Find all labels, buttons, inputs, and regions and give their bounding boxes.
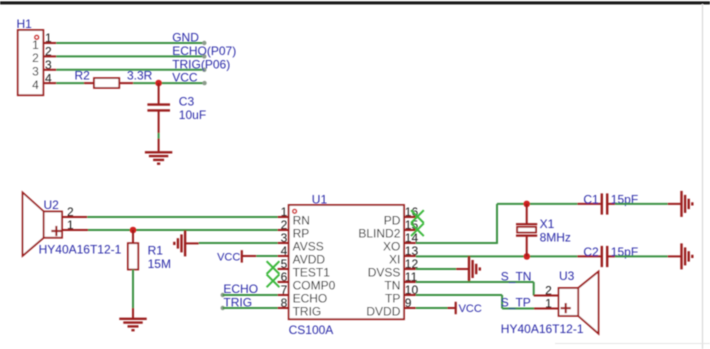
- wire to VCC label: [133, 81, 207, 85]
- svg-text:VCC: VCC: [172, 71, 198, 85]
- svg-text:DVDD: DVDD: [366, 305, 400, 319]
- op-amp U1 CS100A body: [289, 205, 404, 319]
- svg-text:R1: R1: [148, 243, 164, 257]
- ground AVSS: [174, 230, 198, 256]
- pin 6 COMP0: [278, 270, 336, 293]
- junction node XI/X1: [524, 253, 531, 260]
- ground C3: [145, 139, 172, 164]
- no-connect X pin 15: [411, 223, 424, 236]
- wire C3-ground: [158, 133, 160, 139]
- pin 14 XO: [383, 231, 418, 254]
- svg-text:AVDD: AVDD: [293, 253, 326, 267]
- wire S_TN: [416, 282, 534, 296]
- svg-text:6: 6: [281, 270, 288, 284]
- svg-text:15M: 15M: [148, 257, 171, 271]
- svg-text:DVSS: DVSS: [368, 266, 401, 280]
- svg-text:1: 1: [32, 38, 39, 52]
- svg-text:2: 2: [67, 205, 74, 219]
- svg-text:2: 2: [281, 218, 288, 232]
- svg-text:C3: C3: [179, 95, 195, 109]
- svg-text:PD: PD: [384, 214, 401, 228]
- svg-text:11: 11: [405, 270, 418, 284]
- svg-text:HY40A16T12-1: HY40A16T12-1: [39, 243, 122, 257]
- svg-text:BLIND2: BLIND2: [358, 227, 400, 241]
- power port VCC (DVDD): [448, 302, 482, 315]
- svg-text:TRIG: TRIG: [293, 305, 322, 319]
- svg-text:VCC: VCC: [459, 303, 482, 315]
- wire R1 to ground: [132, 270, 134, 309]
- crystal X1: [516, 204, 555, 257]
- svg-text:U3: U3: [559, 269, 575, 283]
- transducer U3: [559, 272, 599, 334]
- svg-text:COMP0: COMP0: [293, 279, 336, 293]
- wire XI: [416, 255, 578, 257]
- capacitor C3: [147, 83, 194, 133]
- svg-text:3.3R: 3.3R: [127, 69, 153, 83]
- svg-text:TRIG: TRIG: [223, 295, 252, 309]
- junction node R1: [130, 227, 137, 234]
- svg-text:8: 8: [281, 296, 288, 310]
- svg-text:7: 7: [281, 283, 288, 297]
- svg-text:S_TP: S_TP: [501, 296, 531, 310]
- pin 12 DVSS: [368, 257, 419, 280]
- svg-text:HY40A16T12-1: HY40A16T12-1: [501, 322, 584, 336]
- pin 1 RN: [278, 205, 310, 228]
- connector H1: [17, 17, 57, 95]
- svg-text:5: 5: [281, 257, 288, 271]
- no-connect X pin 16: [411, 210, 424, 223]
- ground C2: [668, 243, 693, 269]
- pin 10 TP: [385, 283, 418, 306]
- svg-text:1: 1: [545, 296, 552, 310]
- svg-text:4: 4: [32, 78, 39, 92]
- wire AVDD: [256, 255, 277, 257]
- svg-text:TP: TP: [385, 292, 400, 306]
- wire U2 pin2 to U1 RN: [87, 216, 277, 218]
- pin 8 TRIG: [278, 296, 322, 319]
- pin 7 ECHO: [278, 283, 328, 306]
- svg-text:U2: U2: [44, 198, 60, 212]
- ground R1: [119, 308, 146, 330]
- svg-text:4: 4: [281, 244, 288, 258]
- wire S_TP: [416, 295, 534, 309]
- svg-text:H1: H1: [17, 17, 33, 31]
- pin 4 AVDD: [278, 244, 326, 267]
- svg-text:C1: C1: [583, 192, 599, 206]
- wire U2 pin1 to U1 RP: [88, 229, 278, 231]
- pin 11 TN: [384, 270, 417, 293]
- pin 2 of U3: [534, 283, 559, 297]
- svg-text:TEST1: TEST1: [293, 266, 331, 280]
- wire TRIG(P06): [56, 68, 206, 72]
- capacitor C2: [577, 245, 615, 267]
- svg-text:1: 1: [281, 205, 288, 219]
- svg-text:S_TN: S_TN: [501, 269, 532, 283]
- wire TRIG: [221, 306, 278, 310]
- wire DVDD: [416, 307, 448, 309]
- transducer U2: [23, 193, 62, 256]
- wire C1-ground: [615, 203, 668, 205]
- no-connect X pin 6: [267, 274, 280, 287]
- pin 13 XI: [389, 244, 418, 267]
- svg-text:RN: RN: [293, 214, 310, 228]
- pin 3 AVSS: [278, 231, 324, 254]
- wire GND: [56, 41, 206, 45]
- svg-text:ECHO: ECHO: [223, 282, 258, 296]
- svg-text:8MHz: 8MHz: [540, 230, 571, 244]
- svg-text:9: 9: [405, 296, 412, 310]
- svg-text:ECHO(P07): ECHO(P07): [172, 44, 236, 58]
- pin 9 DVDD: [366, 296, 415, 319]
- svg-text:GND: GND: [172, 31, 199, 45]
- svg-text:R2: R2: [75, 69, 91, 83]
- pin 5 TEST1: [278, 257, 331, 280]
- resistor R1: [128, 230, 163, 270]
- wire ECHO: [221, 293, 278, 297]
- wire AVSS: [199, 242, 278, 244]
- wire DVSS: [416, 268, 456, 270]
- svg-text:RP: RP: [293, 227, 310, 241]
- pin 1 of U3: [534, 296, 559, 310]
- svg-text:XI: XI: [389, 253, 400, 267]
- svg-text:2: 2: [545, 283, 552, 297]
- svg-text:3: 3: [32, 65, 39, 79]
- svg-text:1: 1: [67, 218, 74, 232]
- pin 15 BLIND2: [358, 218, 418, 241]
- resistor R2: [75, 69, 134, 88]
- svg-text:VCC: VCC: [217, 251, 240, 263]
- ground DVSS: [456, 256, 480, 282]
- svg-text:TRIG(P06): TRIG(P06): [172, 57, 230, 71]
- capacitor C1: [577, 192, 615, 214]
- wire XO: [416, 204, 578, 244]
- svg-text:XO: XO: [383, 240, 400, 254]
- pin 2 RP: [278, 218, 310, 241]
- svg-text:2: 2: [32, 51, 39, 65]
- svg-text:C2: C2: [583, 245, 599, 259]
- svg-text:TN: TN: [384, 279, 400, 293]
- svg-text:X1: X1: [540, 217, 555, 231]
- svg-text:ECHO: ECHO: [293, 292, 328, 306]
- junction node VCC/C3: [155, 80, 162, 87]
- wire C2-ground: [615, 255, 668, 257]
- svg-text:U1: U1: [312, 192, 328, 206]
- pin 2 of U2: [62, 205, 87, 219]
- svg-text:CS100A: CS100A: [289, 323, 334, 337]
- no-connect X pin 5: [267, 261, 280, 274]
- wire ECHO(P07): [56, 54, 206, 58]
- pin 1 of U2: [62, 218, 88, 232]
- svg-text:3: 3: [281, 231, 288, 245]
- ground C1: [668, 191, 693, 217]
- power port VCC (AVDD): [217, 250, 256, 263]
- svg-text:10uF: 10uF: [179, 108, 206, 122]
- svg-text:AVSS: AVSS: [293, 240, 324, 254]
- wire VCC row: [56, 82, 84, 84]
- pin 16 PD: [384, 205, 419, 228]
- junction node XO/X1: [523, 201, 530, 208]
